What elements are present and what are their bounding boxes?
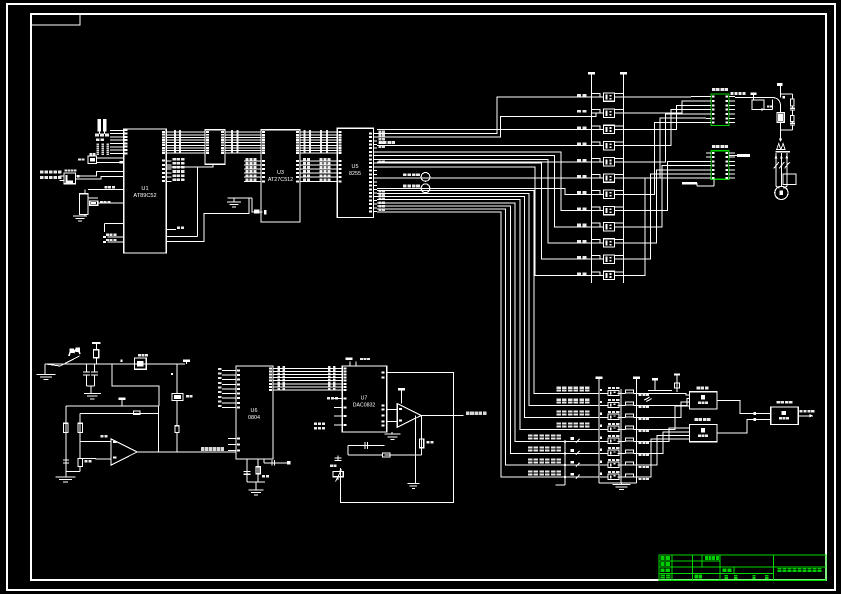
- label spindle speed output: [466, 411, 470, 415]
- wire U5 PA2 to OC3: [377, 128, 592, 130]
- wire U5 PC6 to IN2: [377, 194, 599, 406]
- wire to U3 CE pin: [252, 198, 262, 212]
- wire U5 PC4 to IN4: [377, 200, 599, 430]
- wire OC6 out to U8: [624, 118, 706, 178]
- ADC U6 0804: [236, 366, 273, 459]
- main sensor line: [45, 363, 185, 365]
- contactor KM contacts: [777, 144, 781, 150]
- relay bottom tie: [780, 122, 782, 138]
- wire OC3 out to U8: [624, 105, 706, 129]
- PIO U5 8255: [337, 128, 373, 217]
- signal label +X xian-wei-xin-hao: [528, 435, 533, 437]
- resistor R relay 2: [791, 116, 795, 122]
- wire sensor diagonal: [60, 356, 80, 366]
- U1 P3 stubs: [166, 160, 171, 162]
- resistor label rung 1: [577, 94, 581, 97]
- wire OC1 out to U8: [624, 96, 706, 98]
- wire to vcc flag end: [183, 360, 190, 362]
- wire U5 PA1 to OC2: [377, 113, 604, 137]
- signal label 3# dao-wei-xin-hao: [557, 411, 562, 413]
- optocoupler OC9: [604, 223, 615, 231]
- wire U5 PA3 to OC4: [377, 145, 592, 147]
- wire U5 PB3 to OC11: [377, 163, 592, 259]
- title block table: [659, 555, 826, 580]
- input opto IN6: [608, 450, 619, 455]
- U1 bottom-left pins: [108, 236, 124, 238]
- wire U1 P3.7 to U3 OE: [166, 198, 249, 242]
- wire U5 PB1 to OC9: [377, 156, 592, 227]
- VCC ladder2 right: [633, 377, 640, 379]
- wire U1 EA: [105, 223, 124, 225]
- TXD label: [40, 176, 44, 179]
- optocoupler OC2: [604, 109, 615, 117]
- wire row2 to gateA: [636, 399, 689, 406]
- resistor ladder2 row 4: [618, 428, 626, 430]
- resistor label rung 6: [577, 175, 581, 178]
- relay drive transistor loop: [752, 100, 764, 110]
- wire U5 PB2 to OC10: [377, 159, 592, 243]
- wire row8 to gateB: [636, 439, 689, 477]
- resistor R relay 1: [791, 99, 795, 106]
- thermal sensor RT: [69, 349, 80, 356]
- optocoupler OC10: [604, 239, 615, 247]
- ground ladder2: [599, 482, 637, 484]
- wire OC10 out to U9: [624, 170, 706, 243]
- resistor ladder2 row 2: [618, 404, 626, 406]
- resistor label rung 12: [577, 272, 581, 275]
- wire U5 PC0 to IN8: [377, 212, 599, 477]
- reset resistor R1: [90, 201, 98, 205]
- svg-text:0804: 0804: [248, 415, 260, 421]
- opamp U4B triangle: [397, 404, 421, 428]
- wire U11 output to PC: [798, 415, 813, 417]
- U5 right pins: [374, 132, 378, 134]
- RXD label: [40, 171, 44, 174]
- potentiometer RP2: [333, 471, 343, 476]
- title block labels: [661, 556, 665, 560]
- U3 bus pins: [262, 131, 265, 133]
- optocoupler OC4: [604, 141, 615, 149]
- ladder1 left rail: [591, 78, 593, 283]
- latch U2 74LS373: [205, 130, 225, 165]
- wire U5 PC7 to IN1: [377, 191, 599, 394]
- resistor label rung 5: [577, 159, 581, 162]
- VCC divider: [92, 342, 100, 344]
- gate U10 74LS21 A: [690, 392, 718, 409]
- input opto IN5: [608, 438, 619, 443]
- svg-text:AT27C512: AT27C512: [268, 177, 293, 183]
- resistor ladder2 row 7: [618, 464, 626, 466]
- limit switch SQ2: [570, 449, 574, 452]
- svg-text:U7: U7: [361, 396, 368, 402]
- wire row6 to gateB: [636, 432, 689, 453]
- limit switch common rail: [564, 441, 566, 485]
- opamp U4A triangle: [111, 439, 137, 465]
- resistor ladder2 row 5: [618, 440, 626, 442]
- ground U9: [713, 179, 715, 186]
- wire reset to U1 RST: [98, 202, 124, 204]
- U1 P1 pins left: [110, 129, 124, 131]
- resistor R5: [64, 423, 68, 432]
- cap relay 1: [790, 107, 795, 109]
- signal label -Z xian-wei-xin-hao: [528, 470, 533, 472]
- wire OC8 out to U9: [624, 161, 706, 210]
- optocoupler OC12: [604, 271, 615, 279]
- bus pin-number hatch columns: [174, 130, 176, 132]
- VCC gate: [674, 374, 680, 376]
- svg-text:DAC0832: DAC0832: [353, 403, 376, 409]
- resistor R11: [382, 453, 389, 457]
- resistor label rung 3: [577, 126, 581, 129]
- resistor label rung 10: [577, 240, 581, 243]
- wire U5 PA4 to OC5: [377, 161, 592, 163]
- resistor label rung 8: [577, 207, 581, 210]
- amplifier box B1: [135, 358, 147, 369]
- branch down to box S: [176, 364, 178, 394]
- wire U5 PB0 to OC8: [377, 152, 592, 211]
- optocoupler OC7: [604, 190, 615, 198]
- VCC ladder1 left rail: [588, 72, 595, 74]
- U7 lower-left control pins: [334, 398, 342, 400]
- resistor ladder2 row 1: [618, 392, 626, 394]
- wire row4 to gateA: [636, 406, 689, 430]
- limit switch SQ1: [570, 437, 574, 440]
- ground reset: [84, 215, 86, 216]
- U1 bus pins right: [166, 131, 172, 133]
- wire to relay coil with arc: [741, 96, 771, 98]
- gate U10 74LS21 B: [690, 425, 718, 442]
- opamp1 input wires: [80, 441, 111, 443]
- resistor ladder2 row 8: [618, 476, 626, 478]
- VCC relay: [777, 83, 782, 86]
- optocoupler OC6: [604, 174, 615, 182]
- resistor label rung 11: [577, 256, 581, 259]
- U3 lower pins and lines to U5: [244, 160, 261, 162]
- cap C9: [337, 456, 339, 462]
- pull-up at gate inputs: [652, 378, 658, 380]
- wire U5 PC5 to IN3: [377, 197, 599, 418]
- motor M: [775, 186, 788, 199]
- input opto IN4: [608, 426, 619, 431]
- optocoupler OC1: [604, 93, 615, 101]
- wire OC9 out to U9: [624, 166, 706, 227]
- optocoupler OC3: [604, 125, 615, 133]
- U7 right pins: [382, 372, 385, 374]
- driver U9 ULN2803 (2): [711, 151, 729, 180]
- address data bus lines: [173, 131, 206, 133]
- reset capacitor C3: [79, 194, 88, 215]
- drawing title text: [778, 568, 782, 570]
- summing line: [385, 454, 422, 456]
- svg-text:U6: U6: [251, 408, 258, 414]
- resistor label rung 9: [577, 224, 581, 227]
- driver U8 ULN2803 (1): [711, 94, 729, 126]
- DAC U7 DAC0832: [342, 366, 386, 432]
- filter cap C5: [86, 364, 88, 372]
- svg-text:U1: U1: [141, 186, 148, 192]
- output gate U11: [771, 407, 799, 425]
- cap C8: [348, 445, 385, 447]
- ground caps: [90, 386, 92, 394]
- wire U5 PC1 to IN7: [377, 209, 599, 465]
- wire U5 PC2 to IN6: [377, 206, 599, 453]
- resistor ladder2 row 6: [618, 452, 626, 454]
- thermal overload box FR: [783, 174, 796, 185]
- crystal Y1 12MHz: [88, 156, 97, 164]
- wire crystal to U1 XTAL: [97, 157, 124, 159]
- resistor R divider: [94, 350, 99, 358]
- resistor R6: [78, 423, 82, 432]
- input opto IN3: [608, 414, 619, 419]
- wire row7 to gateB: [636, 435, 689, 465]
- resistor below box S: [176, 400, 178, 425]
- wire OC11 out to U9: [624, 174, 706, 259]
- input opto IN2: [608, 402, 619, 407]
- VCC opamp2: [398, 388, 405, 390]
- connector bar XS2: [737, 154, 750, 157]
- optocoupler OC11: [604, 255, 615, 263]
- resistor R8 lower: [78, 459, 82, 467]
- phase indicator circle A: [421, 173, 430, 182]
- filter cap C6: [94, 364, 96, 372]
- VCC opamp1: [119, 397, 126, 399]
- branch down to opamp loop: [112, 364, 159, 406]
- wire OC2 out to U8: [624, 101, 706, 113]
- frame index box top-left: [31, 14, 80, 25]
- ground under U7: [391, 432, 393, 434]
- pull-up near relay: [751, 93, 757, 95]
- svg-text:U3: U3: [277, 170, 284, 176]
- wire U8 out to relay driver: [735, 96, 741, 98]
- wire row1 to gateA: [636, 393, 689, 395]
- ladder2 rails: [598, 383, 600, 484]
- opamp loop top: [66, 405, 159, 407]
- resistor ladder2 row 3: [618, 416, 626, 418]
- wire OC12 out to U9: [624, 178, 706, 275]
- cap relay 2: [790, 122, 795, 124]
- three phase lines: [775, 153, 777, 187]
- ladder1 right rail: [623, 78, 625, 283]
- VCC ladder2 left: [595, 377, 602, 379]
- EPROM U3 AT27C512: [261, 130, 300, 222]
- wire U5 PA5 to OC6: [377, 177, 592, 179]
- opamp2 input wires: [387, 409, 398, 411]
- wire U5 PA0 to OC1: [377, 97, 592, 133]
- arrow down to contactor: [779, 139, 783, 143]
- resistor label rung 7: [577, 191, 581, 194]
- limit switch SQ4: [570, 473, 574, 476]
- wire U5 PA6 to OC7: [377, 188, 592, 194]
- wire OC7 out to U8: [624, 123, 706, 195]
- signal label 2# dao-wei-xin-hao: [557, 399, 562, 401]
- sheet labels: [725, 575, 728, 577]
- wire serial to U1 TXD: [76, 176, 124, 179]
- resistor label rung 4: [577, 143, 581, 146]
- relay branch right: [781, 93, 793, 95]
- wire OC5 out to U8: [624, 114, 706, 162]
- signal label +Z xian-wei-xin-hao: [528, 459, 533, 461]
- U6 left pins: [222, 369, 236, 371]
- feedback line: [80, 413, 159, 415]
- ground opamp1: [65, 476, 67, 478]
- wire U5 PC3 to IN5: [377, 203, 599, 441]
- data bus U6-U7: [273, 367, 342, 369]
- input opto IN8: [608, 474, 619, 479]
- svg-text:8255: 8255: [349, 171, 361, 177]
- feedback resistor R7: [133, 411, 140, 415]
- signal label 1# dao-wei-xin-hao: [557, 387, 562, 389]
- feedback resistor R10: [421, 415, 423, 455]
- U6 bottom clock RC: [246, 459, 248, 482]
- serial connector J1: [64, 173, 76, 184]
- MCU U1 AT89C52: [124, 129, 167, 253]
- reference box S: [172, 394, 183, 401]
- feedback loop wire: [340, 373, 453, 503]
- VCC ladder1 right rail: [620, 72, 627, 74]
- input opto IN1: [608, 390, 619, 395]
- wire gateB out to U11: [717, 419, 771, 433]
- wire ALE to U2: [166, 164, 213, 167]
- optocoupler OC8: [604, 206, 615, 214]
- wire row3 to gateA: [636, 402, 689, 417]
- resistor label rung 2: [577, 110, 581, 113]
- signal label -X xian-wei-xin-hao: [528, 447, 533, 449]
- cap on left: [63, 459, 69, 461]
- svg-text:U5: U5: [352, 164, 359, 170]
- opamp1 output to U6: [137, 451, 236, 453]
- left divider lines: [65, 406, 67, 477]
- U6 lower-left pins: [228, 437, 236, 439]
- wire gateA out to U11: [717, 400, 771, 413]
- pull-up resistor pack RP1: [98, 119, 102, 132]
- U6 vref wire: [263, 459, 265, 463]
- wire serial to U1 RXD: [76, 171, 124, 176]
- feedback vertical to ground: [414, 415, 416, 483]
- phase indicator circle B: [421, 184, 430, 193]
- ground U3: [228, 197, 253, 199]
- label compare voltage out: [201, 447, 204, 451]
- input opto IN7: [608, 462, 619, 467]
- optocoupler OC5: [604, 158, 615, 166]
- svg-text:AT89C52: AT89C52: [133, 193, 156, 199]
- wire OC4 out to U8: [624, 110, 706, 146]
- opamp2 output: [421, 414, 463, 416]
- ground sensor: [44, 364, 46, 375]
- signal label 4# dao-wei-xin-hao: [557, 423, 562, 425]
- U7 top pins: [349, 362, 351, 367]
- relay coil KM: [777, 112, 784, 122]
- wire row5 to gateB: [636, 428, 689, 441]
- wire U5 PB4 to OC12: [377, 167, 592, 276]
- U1 pin 29 stub: [166, 228, 176, 230]
- limit switch SQ3: [570, 461, 574, 464]
